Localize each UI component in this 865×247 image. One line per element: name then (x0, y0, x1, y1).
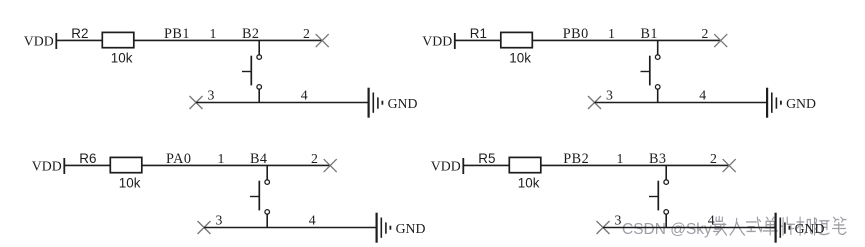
wire pin1 stub of B3 (665, 165, 667, 179)
svg-text:GND: GND (396, 221, 426, 236)
svg-text:PB1: PB1 (164, 26, 190, 42)
B4 lower contact (265, 210, 270, 215)
ground symbol bar 2 (372, 93, 374, 113)
svg-text:PB2: PB2 (563, 151, 589, 167)
svg-text:4: 4 (708, 212, 715, 227)
svg-text:3: 3 (615, 212, 622, 227)
ground symbol bar 1 (774, 213, 776, 243)
B3 actuator stem (649, 196, 658, 198)
B2 actuator bar (250, 56, 252, 86)
no-ERC cross at pin 3 (198, 221, 211, 234)
svg-text:4: 4 (699, 87, 706, 102)
B2 lower contact (257, 85, 262, 90)
resistor R5 body (509, 157, 541, 172)
ground symbol bar 1 (376, 213, 378, 243)
svg-text:4: 4 (301, 87, 308, 102)
wire net PB1 to pin 2 (134, 39, 322, 41)
ground symbol bar 2 (380, 218, 382, 238)
wire pin1 stub of B1 (657, 40, 659, 54)
svg-text:4: 4 (309, 212, 316, 227)
svg-text:R6: R6 (79, 151, 96, 166)
B3 lower contact (664, 210, 669, 215)
svg-text:2: 2 (311, 151, 318, 166)
watermark glyph ji (797, 217, 812, 235)
ground symbol bar 4 (381, 101, 383, 105)
svg-text:B3: B3 (649, 151, 666, 167)
no-ERC cross at pin 2 (723, 159, 736, 172)
svg-text:GND: GND (795, 221, 825, 236)
svg-text:GND: GND (388, 96, 418, 111)
svg-text:PB0: PB0 (563, 26, 589, 42)
svg-text:B1: B1 (641, 26, 658, 42)
ground symbol bar 2 (771, 93, 773, 113)
ground symbol bar 3 (775, 97, 777, 108)
wire pin4 stub of B2 (258, 89, 260, 102)
wire pin3 to GND (595, 102, 768, 104)
B1 upper contact (655, 55, 660, 60)
no-ERC cross at pin 3 (588, 96, 601, 109)
svg-text:1: 1 (210, 26, 217, 41)
wire VDD to resistor R2 (56, 39, 102, 41)
B1 actuator stem (641, 71, 650, 73)
wire pin4 stub of B1 (657, 89, 659, 102)
VDD power bar (462, 158, 464, 174)
B3 actuator bar (657, 181, 659, 211)
ground symbol bar 3 (385, 222, 387, 233)
ground symbol bar 2 (779, 218, 781, 238)
svg-text:3: 3 (216, 212, 223, 227)
watermark glyph dan (763, 217, 777, 235)
VDD power bar (63, 158, 65, 174)
wire pin1 stub of B4 (266, 165, 268, 179)
svg-text:10k: 10k (119, 175, 141, 190)
no-ERC cross at pin 2 (316, 34, 329, 47)
svg-text:10k: 10k (111, 50, 133, 65)
svg-text:3: 3 (208, 87, 215, 102)
wire pin1 stub of B2 (258, 40, 260, 54)
svg-text:2: 2 (710, 151, 717, 166)
svg-text:GND: GND (786, 96, 816, 111)
resistor R6 body (110, 157, 142, 172)
svg-text:VDD: VDD (32, 159, 62, 174)
svg-text:VDD: VDD (431, 159, 461, 174)
ground symbol bar 4 (780, 101, 782, 105)
B4 actuator stem (250, 196, 259, 198)
B2 actuator stem (242, 71, 251, 73)
wire pin3 to GND (196, 102, 369, 104)
wire VDD to resistor R5 (463, 164, 509, 166)
no-ERC cross at pin 3 (597, 221, 610, 234)
svg-text:10k: 10k (509, 50, 531, 65)
B1 lower contact (655, 85, 660, 90)
svg-text:3: 3 (606, 87, 613, 102)
ground symbol bar 1 (766, 88, 768, 118)
svg-text:R5: R5 (478, 151, 495, 166)
watermark glyph ru (730, 218, 744, 235)
svg-text:2: 2 (702, 26, 709, 41)
svg-text:PA0: PA0 (166, 151, 191, 167)
watermark glyph sui (815, 218, 829, 235)
no-ERC cross at pin 2 (714, 34, 727, 47)
wire pin4 stub of B4 (266, 214, 268, 227)
wire VDD to resistor R6 (64, 164, 110, 166)
ground symbol bar 4 (788, 226, 790, 230)
B3 upper contact (664, 180, 669, 185)
svg-text:VDD: VDD (24, 34, 54, 49)
no-ERC cross at pin 3 (190, 96, 203, 109)
svg-text:2: 2 (303, 26, 310, 41)
resistor R2 body (102, 32, 134, 47)
resistor R1 body (501, 32, 533, 47)
B4 actuator bar (258, 181, 260, 211)
VDD power bar (454, 33, 456, 49)
wire net PA0 to pin 2 (142, 164, 330, 166)
svg-text:R1: R1 (470, 26, 487, 41)
svg-text:1: 1 (608, 26, 615, 41)
watermark glyph shi (747, 217, 762, 231)
B1 actuator bar (649, 56, 651, 86)
watermark glyph bi (833, 217, 846, 234)
B2 upper contact (257, 55, 262, 60)
wire pin4 stub of B3 (665, 214, 667, 227)
watermark glyph pian (780, 217, 794, 235)
svg-text:R2: R2 (71, 26, 88, 41)
B4 upper contact (265, 180, 270, 185)
watermark glyph qian (713, 217, 726, 235)
ground symbol bar 1 (368, 88, 370, 118)
wire net PB2 to pin 2 (541, 164, 729, 166)
ground symbol bar 4 (389, 226, 391, 230)
wire pin3 to GND (204, 227, 377, 229)
svg-text:CSDN @Sky: CSDN @Sky (622, 221, 712, 238)
svg-text:1: 1 (617, 151, 624, 166)
ground symbol bar 3 (784, 222, 786, 233)
wire pin3 to GND (603, 227, 776, 229)
VDD power bar (55, 33, 57, 49)
wire VDD to resistor R1 (455, 39, 501, 41)
svg-text:VDD: VDD (422, 34, 452, 49)
svg-text:10k: 10k (518, 175, 540, 190)
ground symbol bar 3 (377, 97, 379, 108)
svg-text:B2: B2 (242, 26, 259, 42)
wire net PB0 to pin 2 (532, 39, 720, 41)
no-ERC cross at pin 2 (324, 159, 337, 172)
svg-text:1: 1 (218, 151, 225, 166)
svg-text:B4: B4 (250, 151, 267, 167)
